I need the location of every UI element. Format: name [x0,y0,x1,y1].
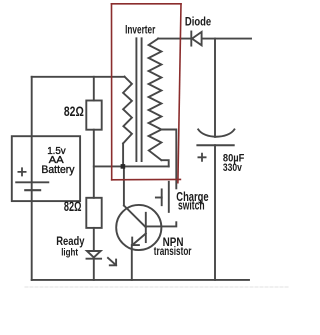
battery B1 short plate [25,189,40,191]
diode D1 triangle [192,32,202,45]
white label mask over centre tap wire [173,189,211,221]
transistor Q1 collector diagonal [124,206,146,228]
charge switch SW1 left bar [161,189,163,205]
wire secondary bottom hook [161,160,168,166]
svg-text:Ready: Ready [56,234,84,248]
wire capacitor to bottom rail [214,145,216,280]
wire top-left horizontal from battery rail to primary top [32,76,125,78]
wire left rail vertical [31,77,33,280]
transistor Q1 circle [116,205,161,250]
secondary winding of inverter transformer [149,39,162,161]
svg-text:transistor: transistor [154,244,192,258]
wire capacitor branch vertical upper [214,39,216,137]
svg-text:switch: switch [178,199,205,213]
LED D2 ready light triangle [87,251,101,257]
wire primary bottom to collector [122,143,125,205]
wire between R2 and ready light LED [93,228,95,251]
LED D2 cathode bar [87,258,102,260]
transformer core lines [136,38,141,161]
wire emitter to bottom rail [131,245,133,280]
wire secondary centre tap to switch/base [146,130,177,227]
svg-text:Battery: Battery [41,164,75,176]
transistor Q1 base bar [145,213,147,242]
battery B1 long plate [16,181,48,183]
svg-text:Inverter: Inverter [125,24,156,36]
primary winding of inverter transformer [123,77,132,144]
node junction dot at primary/branch [121,164,126,169]
svg-text:82Ω: 82Ω [64,198,82,214]
capacitor C1 curved top plate [198,129,234,136]
svg-text:light: light [61,248,78,259]
charge switch SW1 right bar wire [168,182,170,212]
resistor R1 82ohm box [86,101,101,130]
red highlight box around inverter [112,4,182,183]
wire base-feedback branch horizontal [94,165,169,167]
wire LED to bottom rail [93,259,95,280]
diode D1 cathode bar [190,32,192,46]
battery B1 box [12,136,80,201]
faint scan artifact line at bottom [25,286,290,288]
capacitor plus polarity mark [198,154,205,161]
svg-text:330v: 330v [223,162,243,174]
battery plus polarity mark [18,168,25,175]
wire top rail with diode [158,38,251,40]
wire bottom rail horizontal [32,279,249,281]
capacitor C1 straight bottom plate [197,144,233,146]
svg-text:Diode: Diode [185,14,211,28]
svg-text:82Ω: 82Ω [64,103,84,119]
transistor Q1 emitter diagonal with arrow [132,234,146,246]
wire between R1 and R2 [93,130,95,198]
resistor R2 82ohm box [86,198,101,228]
wire resistor chain upper segment [93,77,95,101]
LED light arrow [108,258,116,265]
charge switch SW1 stub wire [156,197,162,199]
